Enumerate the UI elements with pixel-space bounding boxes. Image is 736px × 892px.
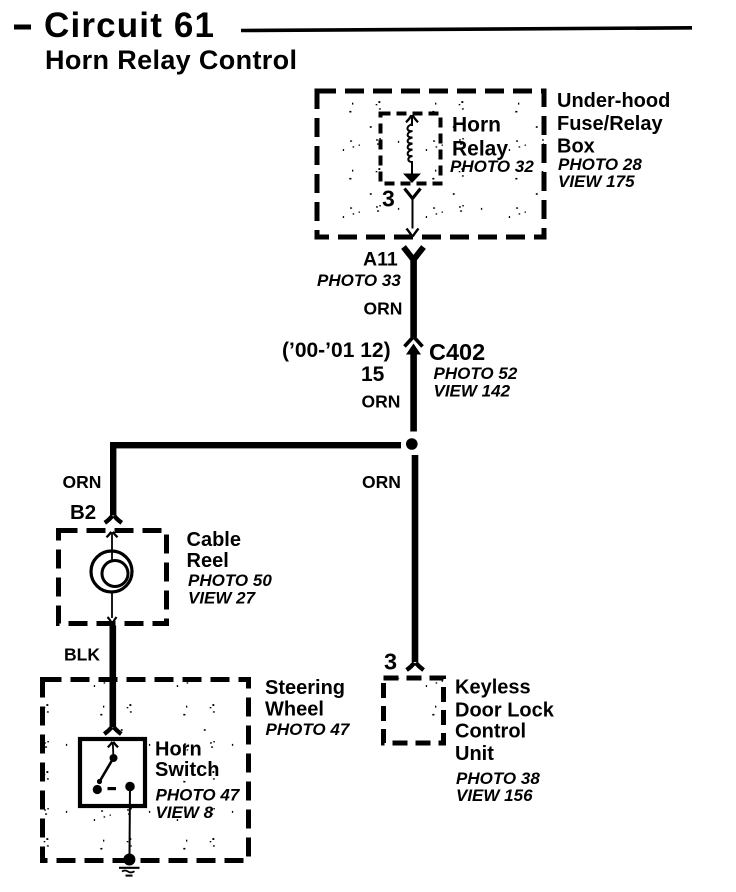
svg-text:Horn: Horn [155,739,202,761]
svg-text:BLK: BLK [64,645,100,665]
svg-text:3: 3 [382,186,395,212]
svg-text:PHOTO 52: PHOTO 52 [434,364,518,383]
connector Y below relay (female) [405,189,421,237]
svg-text:ORN: ORN [63,472,102,492]
arrow down at relay bottom [411,166,413,176]
connector flare at horn switch (female) [104,727,121,734]
svg-text:ORN: ORN [362,472,401,492]
male pin into cable reel [107,532,118,562]
svg-text:Fuse/Relay: Fuse/Relay [557,113,663,135]
switch arm [99,759,113,783]
wire BLK down to horn switch [110,626,117,728]
svg-text:15: 15 [361,363,385,386]
svg-text:Reel: Reel [187,550,229,572]
svg-text:VIEW 175: VIEW 175 [558,172,635,191]
relay coil element [403,115,421,183]
svg-text:VIEW 156: VIEW 156 [456,786,533,805]
male pin into horn switch [108,742,118,755]
svg-text:VIEW 142: VIEW 142 [434,382,511,401]
svg-text:Circuit 61: Circuit 61 [44,6,214,45]
ground symbol [119,868,140,876]
male pin arrow down at box edge [407,229,419,237]
svg-text:Horn Relay Control: Horn Relay Control [45,45,297,75]
svg-text:Wheel: Wheel [265,699,324,721]
title rule [241,28,692,31]
wire ORN vertical (A11 to C402) [410,256,417,337]
svg-text:Control: Control [455,721,526,743]
svg-text:Door Lock: Door Lock [455,700,555,722]
switch right contact dot [125,782,135,792]
Steering Wheel box (dashed) [43,680,249,861]
Under-hood Fuse/Relay Box (dashed) [317,91,544,237]
svg-text:Cable: Cable [187,529,241,551]
svg-text:B2: B2 [70,501,96,524]
svg-text:ORN: ORN [362,392,401,412]
cable reel spiral coil [91,551,132,592]
switch left contact dot [93,785,102,794]
junction node (dot) [406,438,418,450]
svg-text:PHOTO 32: PHOTO 32 [450,157,534,176]
exit arrow at reel bottom [108,617,117,624]
Horn Switch box (solid) [80,739,145,806]
wire inside reel down [111,592,113,618]
connector flare at keyless (female) [407,663,424,670]
svg-text:VIEW 8: VIEW 8 [156,803,214,822]
male pin arrow up (relay top) [406,115,418,122]
wire left vertical down to B2 [110,442,116,516]
connector A11 thick Y (female) [404,247,424,260]
Cable Reel box (dashed) [59,531,167,624]
svg-text:A11: A11 [363,249,398,271]
wire [412,198,414,229]
Keyless Door Lock Control Unit box (dashed) [384,678,444,743]
svg-text:PHOTO 33: PHOTO 33 [317,271,401,290]
relay coil winding [408,124,413,167]
svg-text:Horn: Horn [452,114,501,137]
svg-text:VIEW 27: VIEW 27 [188,589,257,608]
svg-text:Switch: Switch [155,759,219,781]
svg-text:PHOTO 50: PHOTO 50 [188,571,272,590]
title dash [14,25,31,30]
svg-text:PHOTO 47: PHOTO 47 [266,720,351,739]
svg-text:Keyless: Keyless [455,677,531,699]
connector C402 (flare + arrow) [405,337,423,355]
svg-text:ORN: ORN [364,299,403,319]
svg-text:3: 3 [384,649,397,675]
wire ORN vertical (C402 to junction) [410,352,417,432]
svg-text:(’00-’01 12): (’00-’01 12) [282,339,391,362]
horn relay inner box (dashed) [381,114,441,184]
ground dot [123,854,135,866]
switch pivot dot [110,754,118,762]
wire horizontal ORN [110,442,401,448]
wire switch to ground [129,787,132,855]
dash mark between contacts [108,787,117,790]
wire right vertical (junction to keyless) [412,455,419,662]
connector B2 flare (female) [105,516,122,523]
svg-text:Under-hood: Under-hood [557,90,670,112]
svg-text:Steering: Steering [265,677,345,699]
svg-text:Unit: Unit [455,743,494,765]
svg-text:C402: C402 [429,339,485,365]
svg-text:PHOTO 47: PHOTO 47 [156,786,241,805]
